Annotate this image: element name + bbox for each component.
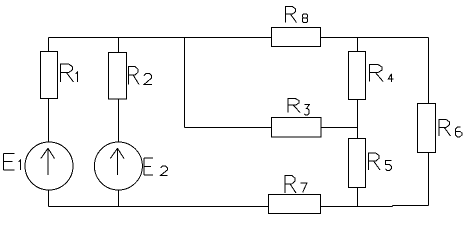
source E1 arrow — [41, 148, 55, 175]
label R6 — [439, 120, 451, 137]
wire R4 top stub — [357, 38, 359, 52]
label R8 subscript 8 — [302, 14, 307, 22]
wire bottom node left — [49, 206, 393, 208]
resistor R4 — [349, 52, 366, 100]
resistor R2 — [109, 53, 127, 100]
wire R6 top stub — [428, 38, 430, 104]
label E2 subscript 2 — [161, 166, 168, 175]
label R4 — [370, 65, 384, 82]
label R5 subscript 5 — [386, 161, 392, 171]
wire bottom jog — [392, 206, 394, 207]
label R3 — [288, 99, 300, 113]
wire R4 to R5 junction — [357, 100, 359, 139]
wire R3 row — [185, 127, 358, 129]
resistor R7 — [269, 195, 321, 214]
resistor R3 — [272, 118, 322, 138]
resistor R8 — [272, 28, 321, 47]
wire R6 to bottom — [428, 153, 430, 206]
wire mid vertical to R3 — [184, 38, 186, 128]
label R4 subscript 4 — [388, 74, 393, 82]
wire R5 to bottom — [357, 188, 359, 207]
wire top node — [49, 37, 429, 39]
label E2 — [144, 158, 153, 175]
label E1 subscript 1 — [19, 160, 21, 170]
label R3 subscript 3 — [304, 105, 309, 115]
source E2 arrow — [110, 148, 124, 175]
label R6 subscript 6 — [456, 127, 462, 137]
source E1 circle — [25, 142, 73, 190]
wire E2 to bottom — [118, 190, 120, 207]
wire bottom node right — [393, 205, 429, 207]
label R2 — [129, 67, 140, 85]
label R1 subscript 1 — [76, 72, 78, 82]
wire R2 to E2 — [118, 99, 120, 143]
label R7 subscript 7 — [301, 183, 307, 192]
label R7 — [285, 176, 296, 194]
resistor R1 — [41, 52, 58, 99]
source E2 circle — [94, 142, 142, 190]
label E1 — [4, 154, 15, 171]
wire R1 top stub — [48, 38, 50, 52]
wire R1 to E1 — [48, 99, 50, 144]
resistor R6 — [418, 104, 436, 153]
wire R2 top stub — [118, 38, 120, 53]
label R8 — [286, 7, 297, 23]
label R2 subscript 2 — [144, 74, 152, 85]
resistor R5 — [349, 139, 366, 188]
wire E1 to bottom — [48, 190, 50, 207]
label R1 — [61, 64, 74, 82]
label R5 — [369, 153, 381, 170]
